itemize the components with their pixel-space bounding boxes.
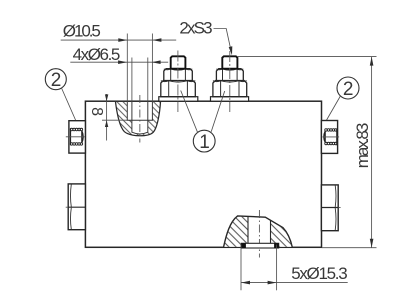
side plug right top body bbox=[321, 121, 337, 154]
dome hatch left bbox=[224, 216, 248, 247]
balloon 2 left leader bbox=[62, 88, 78, 125]
balloon 1 leader right bbox=[211, 91, 225, 132]
dim line 4xØ6.5 bbox=[70, 61, 168, 63]
o-ring right bbox=[274, 243, 279, 248]
hole centerline bbox=[139, 95, 141, 143]
dim line Ø10.5 bbox=[61, 39, 177, 41]
svg-text:2: 2 bbox=[51, 70, 62, 91]
svg-text:1: 1 bbox=[199, 132, 210, 153]
extension lines 4xØ6.5 bbox=[131, 58, 133, 102]
side plug right bottom facets bbox=[334, 185, 337, 230]
fitting T2 flange bbox=[211, 97, 249, 102]
dim 5xØ15.3 line bbox=[241, 282, 348, 284]
side plug left top hex socket bbox=[71, 128, 84, 145]
fitting T1 centerline bbox=[177, 51, 179, 113]
fitting T2 bottom hex bbox=[213, 81, 247, 97]
svg-text:8: 8 bbox=[88, 107, 105, 116]
side plug right bottom midline bbox=[321, 207, 338, 209]
valve block body bbox=[85, 101, 321, 247]
small hole walls bbox=[132, 102, 148, 134]
extension lines Ø10.5 bbox=[126, 34, 128, 102]
counterbore bore walls bbox=[126, 102, 128, 120]
side plug left bottom midline bbox=[68, 206, 85, 208]
dim 5xØ15.3 extension lines bbox=[240, 245, 242, 291]
side plug left bottom facets bbox=[70, 184, 73, 229]
side plug right top hex socket bbox=[324, 129, 337, 146]
side plug left top axis tick bbox=[66, 136, 85, 138]
dim 8 arrows bbox=[106, 94, 108, 120]
cavity channel walls bbox=[247, 216, 249, 243]
svg-text:2: 2 bbox=[343, 79, 354, 100]
o-ring left bbox=[241, 243, 246, 248]
fitting T1 mid hex bbox=[164, 69, 193, 81]
side plug right top axis tick bbox=[322, 136, 339, 138]
dim max.83 line bbox=[371, 57, 373, 248]
fitting T2 centerline bbox=[229, 51, 231, 112]
balloon 2 right circle bbox=[337, 77, 359, 99]
fitting T1 bottom hex bbox=[161, 81, 196, 97]
counterbore outer wall bbox=[116, 102, 161, 136]
svg-text:max.83: max.83 bbox=[353, 123, 372, 169]
fitting T2 mid hex bbox=[216, 69, 243, 81]
balloon 1 leader left bbox=[181, 91, 198, 133]
dome hatch right bbox=[271, 220, 293, 247]
counterbore step line bbox=[127, 119, 153, 121]
svg-text:5xØ15.3: 5xØ15.3 bbox=[291, 264, 348, 283]
seat plate bbox=[241, 243, 278, 248]
step depth tick line bbox=[102, 119, 127, 121]
side plug left top body bbox=[69, 121, 86, 153]
side plug left top threads bbox=[70, 128, 82, 145]
balloon 2 left circle bbox=[45, 69, 66, 90]
fitting T1 top hex S3 bbox=[171, 56, 186, 68]
bottom cavity dome bbox=[224, 216, 293, 247]
side plug right top threads bbox=[325, 129, 337, 145]
balloon 2 right leader bbox=[326, 96, 340, 121]
fitting T1 flange bbox=[159, 97, 198, 102]
side plug left bottom body bbox=[68, 184, 85, 230]
svg-text:Ø10.5: Ø10.5 bbox=[63, 22, 101, 41]
svg-text:2xS3: 2xS3 bbox=[179, 19, 212, 38]
svg-text:4xØ6.5: 4xØ6.5 bbox=[73, 45, 121, 64]
dim max.83 extension lines bbox=[238, 56, 377, 58]
cavity centerline bbox=[258, 210, 260, 258]
fitting T2 top hex S3 bbox=[222, 56, 237, 68]
balloon 1 circle bbox=[193, 130, 215, 152]
counterbore section hatch bbox=[116, 102, 161, 136]
leader 2xS3 bbox=[214, 29, 232, 52]
side plug right bottom body bbox=[321, 185, 338, 231]
